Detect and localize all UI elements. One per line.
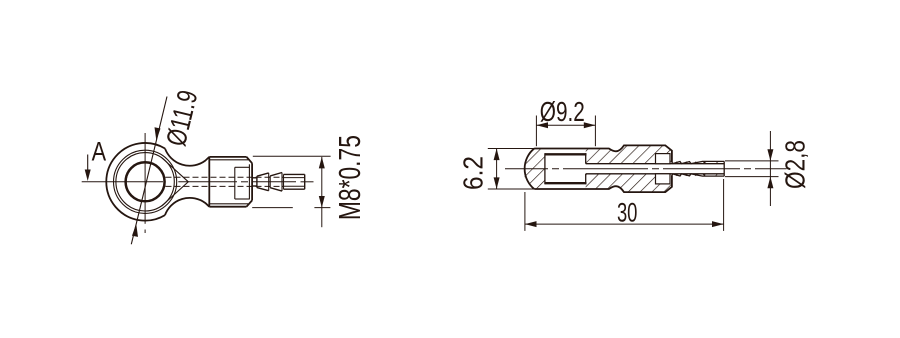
svg-text:Ø2,8: Ø2,8 — [779, 140, 810, 189]
svg-text:30: 30 — [617, 198, 638, 228]
svg-text:Ø9.2: Ø9.2 — [540, 96, 585, 127]
svg-text:6.2: 6.2 — [458, 156, 489, 190]
svg-text:M8*0.75: M8*0.75 — [332, 135, 367, 220]
svg-text:A: A — [92, 137, 107, 167]
